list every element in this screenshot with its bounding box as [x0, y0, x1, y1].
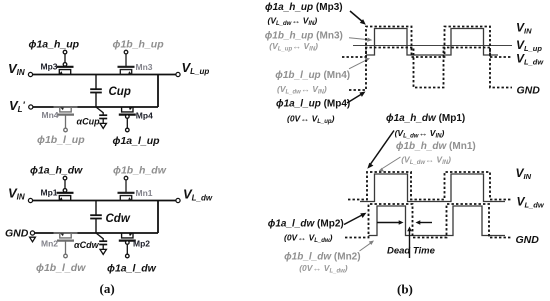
svg-text:GND: GND — [517, 84, 541, 96]
transistor Mn1 — [118, 176, 135, 200]
svg-text:GND: GND — [516, 234, 540, 246]
svg-text:Mp4: Mp4 — [136, 111, 153, 121]
svg-text:Mp3: Mp3 — [41, 62, 58, 72]
waveform phi1b_l_dw (solid lower, GND/VL_dw) — [369, 206, 506, 236]
svg-text:ϕ1b_h_dw (Mn1): ϕ1b_h_dw (Mn1) — [396, 141, 476, 152]
svg-text:Mp1: Mp1 — [41, 188, 58, 198]
node VIN (bottom circuit input terminal) — [28, 198, 32, 202]
svg-text:Mp2: Mp2 — [133, 238, 150, 248]
svg-text:Dead Time: Dead Time — [387, 246, 436, 257]
wire right junction vertical (joins rails to VL_dw) — [157, 201, 159, 234]
svg-text:ϕ1a_h_dw (Mp1): ϕ1a_h_dw (Mp1) — [386, 113, 465, 124]
svg-text:ϕ1b_h_up: ϕ1b_h_up — [113, 39, 165, 51]
wire bottom rail of bottom circuit — [34, 232, 158, 234]
transistor Mn2 — [57, 233, 74, 258]
arrow from phi1a_h_up label to waveform — [350, 11, 366, 25]
arrow from phi1b_h_dw label to waveform — [379, 157, 401, 172]
svg-text:ϕ1a_l_up (Mp4): ϕ1a_l_up (Mp4) — [276, 99, 350, 110]
svg-text:ϕ1a_h_up: ϕ1a_h_up — [29, 39, 80, 51]
arrow from phi1b_l_dw label to waveform — [360, 241, 375, 252]
svg-text:ϕ1b_l_dw: ϕ1b_l_dw — [36, 262, 86, 274]
svg-text:ϕ1b_h_up (Mn3): ϕ1b_h_up (Mn3) — [265, 31, 343, 42]
transistor Mp3 — [57, 50, 74, 74]
waveform phi1a_l_dw (dotted lower, GND/VL_dw) — [345, 204, 512, 238]
annotation dead time right arrow — [416, 220, 433, 225]
waveform phi1a_h_dw (dotted upper, VL_dw/VIN) — [348, 172, 512, 200]
net VL_up reference line — [353, 45, 512, 47]
node VL_dw (bottom circuit output terminal) — [176, 198, 180, 202]
transistor Mp4 — [119, 107, 136, 132]
wire right junction vertical (joins rails to VL_up) — [157, 75, 159, 108]
arrow from phi1b_h_up label to waveform — [349, 38, 372, 42]
ground (below alphaCup) — [100, 123, 106, 128]
wire (grey segment under Mn2) — [54, 232, 78, 234]
node VL_up (top circuit output terminal) — [176, 72, 180, 76]
node GND terminal — [30, 231, 34, 235]
svg-text:ϕ1a_h_up (Mp3): ϕ1a_h_up (Mp3) — [265, 2, 343, 13]
arrow from phi1a_l_up label to waveform — [347, 92, 366, 104]
svg-text:Mn4: Mn4 — [42, 110, 59, 120]
svg-text:ϕ1a_l_up: ϕ1a_l_up — [113, 135, 161, 147]
svg-text:ϕ1b_l_up (Mn4): ϕ1b_l_up (Mn4) — [275, 70, 350, 81]
waveform phi1a_l_up (dotted, GND/VL_up) — [349, 48, 512, 91]
svg-text:ϕ1a_l_dw: ϕ1a_l_dw — [107, 263, 157, 275]
transistor Mp1 — [57, 176, 74, 200]
waveform phi1b_h_dw (solid upper, VL_dw/VIN) — [360, 174, 505, 202]
svg-text:ϕ1b_l_up: ϕ1b_l_up — [37, 134, 85, 146]
node VL' (bottom-left terminal of top circuit) — [29, 105, 33, 109]
svg-text:Mn1: Mn1 — [136, 188, 153, 198]
arrow from phi1a_l_dw label to waveform — [344, 213, 366, 225]
waveform phi1b_h_up (solid, VL_up/VIN) — [366, 29, 498, 56]
svg-text:(a): (a) — [100, 281, 115, 296]
arrow from phi1a_h_dw label to waveform — [367, 131, 394, 169]
svg-text:ϕ1a_h_dw: ϕ1a_h_dw — [30, 165, 83, 177]
capacitor alphaCdw — [96, 233, 107, 249]
annotation dead time up arrow — [407, 227, 412, 259]
capacitor Cup — [90, 75, 102, 108]
svg-text:αCdw: αCdw — [74, 240, 100, 250]
svg-text:ϕ1a_l_dw (Mp2): ϕ1a_l_dw (Mp2) — [268, 219, 344, 230]
svg-text:αCup: αCup — [77, 117, 101, 127]
transistor Mn3 — [118, 50, 135, 74]
annotation dead time left arrow — [377, 220, 404, 225]
ground (below alphaCdw) — [100, 249, 106, 254]
svg-text:Mn2: Mn2 — [41, 238, 58, 248]
capacitor alphaCup — [96, 107, 107, 123]
waveform phi1a_h_up (dotted, VL_dw/VIN) — [342, 27, 512, 58]
svg-text:Cdw: Cdw — [106, 213, 131, 225]
svg-text:ϕ1b_h_dw: ϕ1b_h_dw — [113, 165, 167, 177]
wire top rail of bottom circuit — [32, 200, 176, 202]
arrow from phi1b_l_up label to waveform — [349, 58, 370, 69]
transistor Mp2 — [119, 233, 136, 258]
svg-text:Cup: Cup — [109, 86, 131, 98]
wire top rail (VIN to VL_up) — [32, 74, 176, 76]
svg-text:ϕ1b_l_dw (Mn2): ϕ1b_l_dw (Mn2) — [284, 252, 360, 263]
capacitor Cdw — [90, 201, 102, 234]
node VIN (top circuit input terminal) — [28, 72, 32, 76]
wire bottom rail of top circuit — [33, 106, 158, 108]
ground (GND terminal symbol) — [30, 237, 36, 242]
svg-text:GND: GND — [5, 228, 29, 240]
wire (grey segment under Mn4) — [54, 106, 78, 108]
svg-text:(b): (b) — [397, 282, 413, 297]
transistor Mn4 — [57, 107, 74, 132]
svg-text:Mn3: Mn3 — [136, 62, 153, 72]
